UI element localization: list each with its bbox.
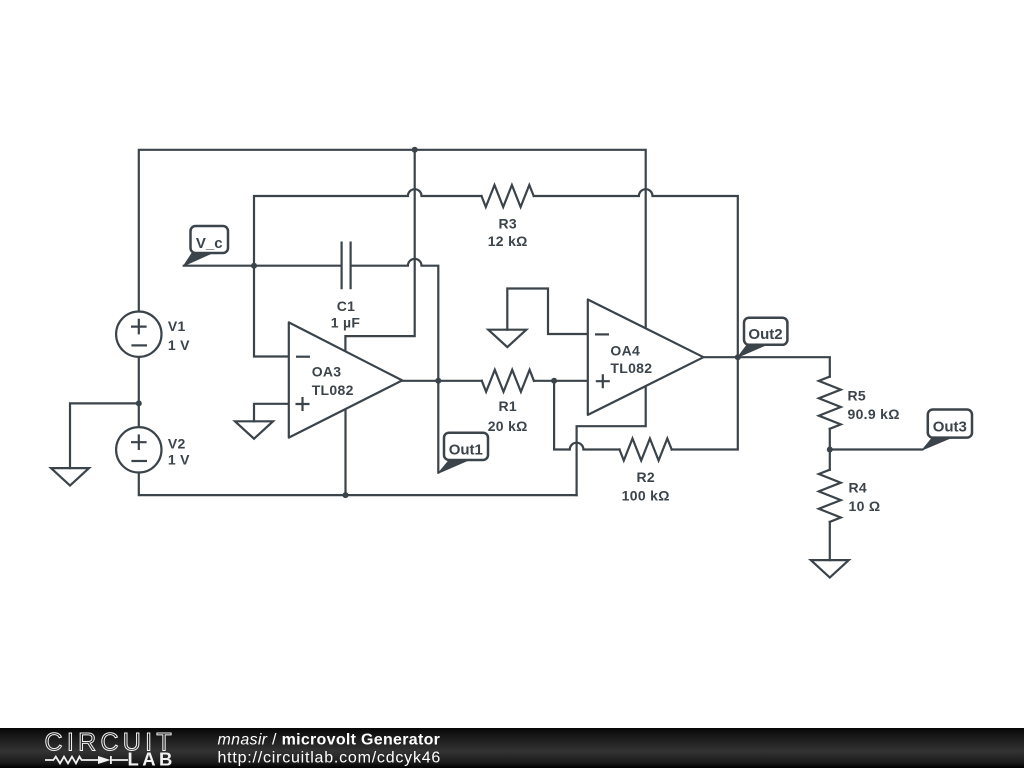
wire OA3 V+ branch to top rail [345, 150, 414, 353]
wire OA4 minus input S-path to ground G3 [507, 289, 588, 335]
V2 minus sign [131, 460, 147, 462]
svg-text:R1: R1 [498, 398, 517, 414]
capacitor C1 plates [342, 242, 351, 290]
wire OA3 output to R1 [402, 380, 482, 382]
svg-text:OA4: OA4 [610, 342, 640, 358]
svg-text:1 µF: 1 µF [331, 315, 361, 331]
wire OA3 V- drop to bottom rail [344, 409, 346, 496]
svg-text:TL082: TL082 [610, 360, 652, 376]
svg-text:Out2: Out2 [748, 326, 782, 343]
wire R3 row after hop [422, 195, 482, 197]
wire C1 right plate to hop [351, 265, 408, 267]
wire node A down to OA3 minus input [254, 266, 289, 357]
logo resistor-diode glyph [45, 756, 128, 764]
junction node bottom rail / OA3 V- [343, 492, 349, 498]
wire OA4 V- drop to bottom rail [577, 384, 646, 495]
svg-text:OA3: OA3 [312, 364, 342, 380]
resistor R4 zigzag (vertical) [819, 470, 841, 522]
V1 minus sign [131, 344, 147, 346]
junction node top rail / OA3 V+ [412, 147, 418, 153]
wire R3 row right segment to hop [534, 195, 639, 197]
wire R3 row: hop over x=645.7 [639, 189, 653, 196]
voltage source V1 circle [116, 312, 161, 357]
junction node R1 / OA4 plus [551, 378, 557, 384]
svg-text:V_c: V_c [196, 235, 223, 252]
flag Out1 [438, 433, 488, 474]
junction node R5/R4 Out3 [827, 447, 833, 453]
svg-text:TL082: TL082 [312, 382, 354, 398]
junction node V_c / OA3 minus [251, 263, 257, 269]
svg-text:100 kΩ: 100 kΩ [622, 488, 670, 504]
ground G1 (V sources) [51, 468, 89, 485]
wire V2 bottom rail across [139, 472, 577, 495]
svg-text:12 kΩ: 12 kΩ [488, 233, 528, 249]
ground G3 (OA4 minus) [488, 330, 526, 347]
wire R1 to OA4 plus input [534, 380, 588, 382]
OA4 minus mark [595, 333, 609, 335]
wire R3 row left segment with vertical to node A [254, 196, 408, 266]
V1 plus sign [131, 319, 147, 335]
wire Out3 node to flag tail [830, 448, 923, 450]
svg-text:1 V: 1 V [168, 452, 190, 468]
wire R2 row after hop [583, 448, 619, 450]
ground G4 (R4) [811, 560, 849, 577]
svg-text:V2: V2 [168, 436, 186, 452]
svg-text:V1: V1 [168, 318, 186, 334]
voltage source V2 circle [116, 427, 161, 472]
OA4 plus mark [596, 374, 610, 388]
svg-text:20 kΩ: 20 kΩ [488, 418, 528, 434]
wire V1 to V2 [138, 357, 140, 427]
flag Out2 [738, 318, 788, 358]
resistor R1 zigzag [482, 370, 534, 392]
wire R3 row: hop over x=414.7 [408, 189, 422, 196]
wire R5 to R4 through Out3 node [829, 429, 831, 470]
wire R3 row after hop down to Out2 node [653, 196, 738, 357]
wire mid node to ground G1 [70, 403, 139, 468]
wire V_c row to C1 left plate [184, 265, 341, 267]
svg-text:R4: R4 [849, 480, 868, 496]
svg-text:R5: R5 [848, 388, 867, 404]
wire OA4 plus node down and right to hop [554, 381, 570, 450]
wire top rail from V1 up and across to OA4 V+ drop [139, 150, 646, 331]
wire R4 to ground G4 [829, 522, 831, 560]
op-amp U OA3 triangle [289, 322, 402, 437]
OA3 plus mark [296, 397, 310, 411]
svg-text:LAB: LAB [128, 748, 176, 768]
resistor R2 zigzag [620, 439, 672, 461]
svg-text:90.9 kΩ: 90.9 kΩ [848, 406, 900, 422]
svg-text:http://circuitlab.com/cdcyk46: http://circuitlab.com/cdcyk46 [218, 750, 442, 767]
wire C1 row after hop, down to Out1 tail [422, 266, 439, 473]
svg-text:R2: R2 [636, 469, 655, 485]
V2 plus sign [131, 434, 147, 450]
junction node OA3 out / Out1 [435, 378, 441, 384]
wire OA4 output to Out2 node and on to R5 [704, 357, 830, 376]
svg-text:R3: R3 [498, 215, 517, 231]
flag V_c [184, 226, 228, 266]
svg-text:Out3: Out3 [933, 419, 967, 436]
op-amp U OA4 triangle [588, 300, 704, 415]
OA3 minus mark [296, 356, 310, 358]
svg-text:1 V: 1 V [168, 337, 190, 353]
ground G2 (OA3 plus) [235, 421, 273, 438]
svg-text:10 Ω: 10 Ω [849, 498, 881, 514]
flag Out3 [922, 410, 972, 450]
svg-text:mnasir / microvolt Generator: mnasir / microvolt Generator [218, 732, 441, 749]
junction node Out2 [735, 354, 741, 360]
svg-text:C1: C1 [337, 298, 356, 314]
wire C1 row: hop over x=414.7 [408, 259, 422, 266]
resistor R3 zigzag [482, 185, 534, 207]
svg-text:Out1: Out1 [449, 442, 483, 459]
wire R2 right up to Out2 node [672, 357, 738, 449]
resistor R5 zigzag (vertical) [819, 377, 841, 429]
junction node V1/V2 mid [136, 400, 142, 406]
wire OA3 plus input to ground G2 [254, 404, 289, 422]
wire R2 row: hop over x=576.6 [570, 443, 584, 450]
